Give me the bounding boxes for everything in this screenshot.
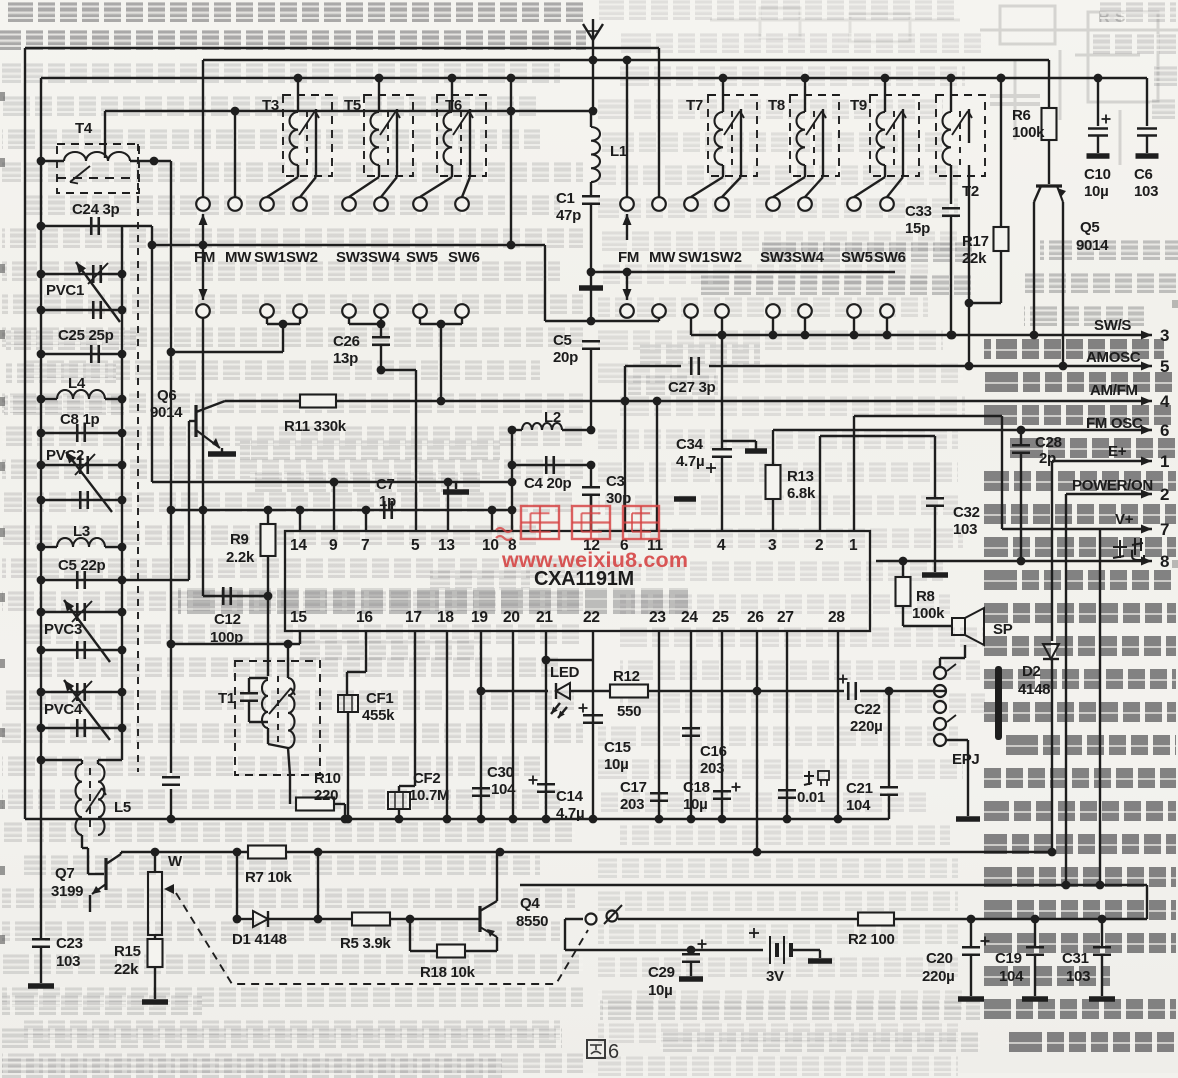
svg-text:C22: C22 — [854, 701, 881, 718]
transformer L5 — [41, 759, 82, 761]
capacitor C22 220u — [847, 682, 850, 700]
svg-text:15: 15 — [290, 609, 307, 626]
capacitor C16 203 on pin24 — [690, 631, 692, 819]
wire FM OSC line — [773, 429, 1129, 431]
svg-text:8550: 8550 — [516, 913, 548, 930]
capacitor C28 2p — [1020, 430, 1022, 445]
resistor R12 550 — [610, 685, 648, 698]
wire rail C x152 — [151, 226, 153, 482]
svg-text:C32: C32 — [953, 504, 980, 521]
svg-text:1: 1 — [1160, 452, 1169, 471]
svg-text:550: 550 — [617, 703, 641, 720]
svg-text:FM: FM — [194, 249, 215, 266]
svg-text:4.7µ: 4.7µ — [676, 453, 704, 470]
svg-text:C21: C21 — [846, 780, 873, 797]
svg-text:22k: 22k — [114, 961, 139, 978]
svg-text:R5 3.9k: R5 3.9k — [340, 935, 391, 952]
inductor L2 — [587, 426, 596, 435]
svg-text:AMOSC: AMOSC — [1086, 349, 1141, 366]
svg-text:L4: L4 — [68, 375, 86, 392]
svg-text:L2: L2 — [544, 409, 561, 426]
capacitor C5 22p — [41, 579, 189, 581]
speaker SP — [952, 618, 965, 635]
wire SW/S line — [691, 334, 1129, 336]
svg-text:17: 17 — [405, 609, 422, 626]
svg-text:20: 20 — [503, 609, 520, 626]
inductor L3 — [41, 546, 57, 548]
svg-text:8: 8 — [1160, 552, 1169, 571]
svg-text:0.01: 0.01 — [797, 789, 825, 806]
wire SW5/SW6-left pair link — [419, 318, 421, 324]
capacitor C25 25p — [41, 353, 122, 355]
wire T9 right leg — [902, 143, 904, 177]
svg-text:22: 22 — [583, 609, 600, 626]
svg-text:L5: L5 — [114, 799, 131, 816]
transformer T4 — [57, 144, 139, 193]
capacitor C8 1p — [41, 432, 122, 434]
svg-text:16: 16 — [356, 609, 373, 626]
svg-text:R12: R12 — [613, 668, 640, 685]
svg-text:3: 3 — [1160, 326, 1169, 345]
svg-text:10µ: 10µ — [683, 796, 707, 813]
svg-text:C10: C10 — [1084, 166, 1111, 183]
svg-text:4: 4 — [717, 537, 726, 554]
svg-text:C30: C30 — [487, 764, 514, 781]
svg-text:C26: C26 — [333, 333, 360, 350]
transistor Q6 9014 — [194, 405, 197, 437]
capacitor C18 10u on pin25 — [721, 631, 723, 819]
svg-text:C33: C33 — [905, 203, 932, 220]
capacitor C13 — [162, 776, 180, 779]
svg-text:9: 9 — [329, 537, 338, 554]
switch bank right bottom contacts — [620, 304, 634, 318]
scan margin marks — [0, 92, 5, 101]
svg-text:SW3: SW3 — [336, 249, 368, 266]
wire antenna link y111 — [105, 110, 593, 112]
caption 'tu 6' figure 6 — [587, 1040, 605, 1058]
wire pin6 — [624, 366, 626, 531]
inductor L4 — [41, 398, 57, 400]
wire T8 left leg — [804, 165, 806, 177]
transformer T3 — [283, 95, 332, 176]
svg-text:20p: 20p — [553, 349, 578, 366]
wire pin2 — [819, 436, 821, 531]
capacitor C32 103 — [934, 436, 936, 498]
svg-text:SP: SP — [993, 621, 1013, 638]
svg-text:3: 3 — [768, 537, 777, 554]
resistor R6 100k — [1048, 60, 1050, 108]
svg-text:220µ: 220µ — [850, 718, 882, 735]
svg-text:FM: FM — [618, 249, 639, 266]
wire pin1 — [853, 416, 855, 531]
svg-text:L3: L3 — [73, 523, 90, 540]
earphone jack EPJ — [964, 645, 966, 658]
wire left rail A x41 — [40, 78, 42, 939]
svg-text:C25 25p: C25 25p — [58, 327, 114, 344]
svg-text:PVC2: PVC2 — [46, 447, 84, 464]
svg-text:21: 21 — [536, 609, 553, 626]
wire T7 left leg — [722, 165, 724, 177]
wire link y352 — [171, 351, 283, 353]
inductor L1 — [590, 111, 592, 127]
wire T3 right leg — [315, 143, 317, 177]
svg-text:R8: R8 — [916, 588, 935, 605]
wire AM/FM arrow — [1129, 400, 1152, 402]
svg-text:R6: R6 — [1012, 107, 1031, 124]
svg-text:C5: C5 — [553, 332, 572, 349]
svg-text:3V: 3V — [766, 968, 784, 985]
wire AGC x318 — [317, 852, 319, 919]
svg-text:C12: C12 — [214, 611, 241, 628]
wire T2 left leg — [950, 165, 952, 204]
svg-text:R15: R15 — [114, 943, 141, 960]
svg-text:T2: T2 — [962, 183, 979, 200]
svg-text:D1 4148: D1 4148 — [232, 931, 287, 948]
svg-text:C28: C28 — [1035, 434, 1062, 451]
svg-text:E+: E+ — [1108, 443, 1127, 460]
svg-text:9014: 9014 — [1076, 237, 1109, 254]
svg-text:R10: R10 — [314, 770, 341, 787]
svg-text:SW2: SW2 — [710, 249, 742, 266]
capacitor C17 203 on pin23 — [658, 631, 660, 819]
wire link y321 — [545, 320, 659, 322]
svg-text:C1: C1 — [556, 190, 575, 207]
wire MW-left top — [234, 111, 236, 197]
svg-text:47p: 47p — [556, 207, 581, 224]
capacitor C14 4.7u on pin21 — [545, 631, 547, 819]
svg-text:2: 2 — [1160, 485, 1169, 504]
transformer T1 — [235, 661, 320, 775]
svg-text:C29: C29 — [648, 964, 675, 981]
wire y885 bus — [520, 884, 1147, 886]
svg-text:T7: T7 — [686, 97, 703, 114]
capacitor C5 20p — [582, 340, 600, 343]
capacitor C6 103 — [1146, 78, 1148, 126]
svg-text:203: 203 — [700, 760, 724, 777]
svg-text:C23: C23 — [56, 935, 83, 952]
svg-text:C19: C19 — [995, 950, 1022, 967]
svg-text:SW/S: SW/S — [1094, 317, 1131, 334]
svg-text:C8 1p: C8 1p — [60, 411, 99, 428]
variable capacitor PVC1 — [41, 273, 122, 275]
capacitor C20 220u — [970, 919, 972, 946]
wire POWER drop x1066 — [1065, 494, 1067, 885]
svg-text:7: 7 — [361, 537, 369, 554]
label 'di' (ground) for pin 8 line — [1119, 540, 1121, 558]
capacitor C31 103 — [1101, 919, 1103, 946]
svg-text:T4: T4 — [75, 120, 93, 137]
wire left wiper drop to link — [544, 245, 546, 321]
power switch — [586, 914, 597, 925]
transistor Q7 3199 — [104, 858, 107, 890]
resistor R10 220 — [296, 798, 334, 811]
wire R2 right — [894, 918, 1147, 920]
svg-text:C31: C31 — [1062, 950, 1089, 967]
ground right wiper — [579, 285, 603, 291]
svg-text:SW5: SW5 — [406, 249, 438, 266]
svg-text:22k: 22k — [962, 250, 987, 267]
wire outer-left rail — [24, 48, 26, 819]
svg-text:7: 7 — [1160, 520, 1169, 539]
svg-text:SW4: SW4 — [792, 249, 825, 266]
svg-text:EPJ: EPJ — [952, 751, 979, 768]
wire T2 right leg — [968, 165, 970, 366]
wire T5 left leg — [378, 165, 380, 177]
svg-text:25: 25 — [712, 609, 729, 626]
svg-text:SW3: SW3 — [760, 249, 792, 266]
transformer T9 — [870, 95, 919, 176]
svg-text:18: 18 — [437, 609, 454, 626]
wire C7 line y510 — [171, 509, 512, 511]
capacitor C23 103 — [32, 938, 50, 941]
svg-text:2.2k: 2.2k — [226, 549, 255, 566]
svg-text:R9: R9 — [230, 531, 249, 548]
capacitor C29 10u — [690, 950, 692, 953]
svg-text:R11 330k: R11 330k — [284, 418, 347, 435]
svg-text:MW: MW — [225, 249, 252, 266]
wire right bank bottom drops to SW/S bus — [690, 318, 692, 335]
wire POWER/ON line — [1066, 493, 1129, 495]
variable capacitor PVC4 — [41, 691, 122, 693]
wire link y370 to pin5 — [381, 369, 416, 371]
ceramic filter CF2 10.7M — [414, 631, 416, 786]
svg-text:30p: 30p — [606, 490, 631, 507]
wire pin26 — [756, 631, 758, 852]
wire pin5 — [415, 370, 417, 531]
wire pin7 — [365, 510, 367, 531]
label 'tie' (chip) on pin27 cap — [808, 771, 810, 785]
capacitor C12 100p — [203, 595, 268, 597]
svg-text:www.weixiu8.com: www.weixiu8.com — [501, 548, 688, 572]
wire pin28 — [837, 631, 839, 819]
capacitor C19 104 — [1034, 919, 1036, 946]
potentiometer W — [154, 852, 156, 872]
diode D1 4148 — [237, 918, 253, 920]
svg-text:POWER/ON: POWER/ON — [1072, 477, 1153, 494]
node T4 top tap — [104, 111, 106, 158]
svg-text:C4 20p: C4 20p — [524, 475, 572, 492]
svg-text:103: 103 — [1066, 968, 1090, 985]
svg-text:T6: T6 — [445, 97, 462, 114]
wire line y482 + ground stub — [152, 481, 512, 483]
svg-text:23: 23 — [649, 609, 666, 626]
wire AGC x237 — [236, 852, 238, 919]
svg-text:R7 10k: R7 10k — [245, 869, 293, 886]
ceramic filter CF1 455k — [365, 631, 367, 672]
wire FM-right top — [626, 60, 628, 197]
wire T9 left leg — [884, 165, 886, 177]
svg-text:24: 24 — [681, 609, 698, 626]
resistor R2 100 — [858, 913, 894, 926]
svg-text:C17: C17 — [620, 779, 647, 796]
svg-text:SW2: SW2 — [286, 249, 318, 266]
svg-text:C3: C3 — [606, 473, 625, 490]
wire T6 left leg — [451, 165, 453, 177]
left wiper arrows — [202, 214, 204, 242]
svg-text:D2: D2 — [1022, 663, 1041, 680]
battery 3V — [564, 919, 566, 950]
svg-text:28: 28 — [828, 609, 845, 626]
capacitor C4 20p — [587, 461, 596, 470]
svg-text:W: W — [168, 853, 183, 870]
svg-text:FM OSC: FM OSC — [1086, 415, 1143, 432]
svg-text:Q6: Q6 — [157, 387, 176, 404]
wire FM-left bottom drop — [202, 318, 204, 596]
svg-text:10µ: 10µ — [648, 982, 672, 999]
bus y852 — [121, 851, 248, 853]
resistor R13 6.8k on pin3 — [772, 430, 774, 465]
svg-text:13: 13 — [438, 537, 455, 554]
svg-text:T8: T8 — [768, 97, 785, 114]
svg-text:C6: C6 — [1134, 166, 1153, 183]
resistor R17 22k — [997, 74, 1006, 83]
svg-text:T1: T1 — [218, 690, 235, 707]
LED — [556, 683, 570, 699]
svg-text:C20: C20 — [926, 950, 953, 967]
wire rail D x171 — [170, 161, 172, 773]
capacitor 0.01 (chip) on pin27 — [786, 631, 788, 819]
wire T6 right leg — [469, 143, 471, 177]
transistor Q4 8550 — [478, 906, 481, 932]
svg-text:C15: C15 — [604, 739, 631, 756]
wire pin11 — [656, 401, 658, 531]
svg-text:104: 104 — [846, 797, 871, 814]
svg-text:13p: 13p — [333, 350, 358, 367]
transformer T2 — [936, 95, 985, 176]
wire pin15 link — [299, 631, 301, 644]
wire top bus B (FM bus) — [203, 59, 1049, 61]
svg-text:4: 4 — [1160, 392, 1170, 411]
capacitor C3 30p — [590, 465, 592, 487]
wire pin10 — [491, 510, 493, 531]
svg-text:Q4: Q4 — [520, 895, 540, 912]
wire pin12 — [590, 495, 592, 531]
svg-text:14: 14 — [290, 537, 307, 554]
capacitor C21 104 — [888, 691, 890, 786]
wire V+ line — [1002, 528, 1129, 530]
svg-text:C34: C34 — [676, 436, 704, 453]
dashed section divider — [137, 144, 139, 772]
wire T3 left leg — [297, 165, 299, 177]
svg-text:T9: T9 — [850, 97, 867, 114]
wire pin18 — [446, 631, 448, 819]
variable capacitor PVC3 — [41, 611, 122, 613]
power line y919 — [565, 918, 583, 920]
resistor R9 2.2k — [264, 506, 273, 515]
wire E+ line — [1052, 460, 1129, 462]
svg-text:PVC3: PVC3 — [44, 621, 82, 638]
wire MW-right top — [658, 48, 660, 197]
audio line y691 — [481, 690, 548, 692]
svg-text:CF1: CF1 — [366, 690, 393, 707]
svg-text:T3: T3 — [262, 97, 279, 114]
wire pin8 — [511, 430, 513, 531]
op-amp U1 CXA1191M body — [285, 531, 870, 631]
wire top bus C (main supply top bus) — [41, 77, 1147, 79]
svg-text:T5: T5 — [344, 97, 361, 114]
svg-text:4148: 4148 — [1018, 681, 1050, 698]
svg-text:C24 3p: C24 3p — [72, 201, 120, 218]
svg-text:R13: R13 — [787, 468, 814, 485]
svg-text:SW1: SW1 — [678, 249, 710, 266]
wire FM-left top to bus B — [202, 60, 204, 197]
wire T8 right leg — [822, 143, 824, 177]
wire pin4 + capacitor C34 4.7u — [721, 335, 723, 449]
ground bus y819 — [25, 818, 889, 820]
svg-text:1: 1 — [849, 537, 858, 554]
svg-text:Q5: Q5 — [1080, 219, 1099, 236]
wire GND(di) line — [876, 560, 1129, 562]
resistor R8 100k — [902, 561, 904, 577]
capacitor C33 15p — [942, 207, 960, 210]
svg-text:SW5: SW5 — [841, 249, 873, 266]
svg-text:C7: C7 — [376, 476, 395, 493]
wire pin20 — [512, 631, 514, 819]
svg-text:100k: 100k — [1012, 124, 1045, 141]
svg-text:Q7: Q7 — [55, 865, 74, 882]
svg-text:C18: C18 — [683, 779, 710, 796]
svg-text:3199: 3199 — [51, 883, 83, 900]
svg-text:SW6: SW6 — [448, 249, 480, 266]
svg-text:C5 22p: C5 22p — [58, 557, 106, 574]
diode D2 4148 — [1051, 461, 1053, 641]
wire left wiper bus — [152, 244, 545, 246]
svg-text:15p: 15p — [905, 220, 930, 237]
wire top bus A (antenna bus) — [25, 47, 659, 49]
svg-text:5: 5 — [411, 537, 420, 554]
wire pin13 — [447, 482, 449, 531]
ground floating a — [745, 448, 767, 454]
switch bank right top contacts — [620, 197, 634, 211]
svg-text:2: 2 — [815, 537, 823, 554]
svg-text:MW: MW — [649, 249, 676, 266]
svg-text:V+: V+ — [1115, 511, 1134, 528]
svg-text:203: 203 — [620, 796, 644, 813]
svg-text:6.8k: 6.8k — [787, 485, 816, 502]
svg-text:220: 220 — [314, 787, 338, 804]
wire SW1/SW2-left pair link — [266, 318, 268, 324]
resistor R15 22k — [154, 935, 156, 939]
capacitor C30 104 on pin19 — [480, 631, 482, 819]
switch bank left top contacts — [196, 197, 210, 211]
capacitor C15 10u on pin22 — [592, 631, 594, 819]
transformer T5 — [364, 95, 413, 176]
wire T7 right leg — [740, 143, 742, 177]
capacitor C1 47p — [590, 182, 592, 196]
svg-text:10: 10 — [482, 537, 499, 554]
transformer T8 — [790, 95, 839, 176]
svg-text:C14: C14 — [556, 788, 584, 805]
ground floating b — [674, 496, 696, 502]
transistor Q5 9014 — [1036, 184, 1062, 187]
capacitor C10 10u — [1097, 78, 1099, 126]
svg-text:100k: 100k — [912, 605, 945, 622]
capacitor C26 13p — [348, 318, 350, 324]
svg-text:455k: 455k — [362, 707, 395, 724]
svg-text:PVC4: PVC4 — [44, 701, 83, 718]
resistor R5 3.9k — [318, 918, 352, 920]
svg-text:103: 103 — [953, 521, 977, 538]
wire T4 row — [41, 160, 64, 162]
switch bank left bottom contacts — [196, 304, 210, 318]
svg-text:103: 103 — [56, 953, 80, 970]
svg-text:10µ: 10µ — [604, 756, 628, 773]
capacitor C24 3p — [41, 225, 152, 227]
svg-text:220µ: 220µ — [922, 968, 954, 985]
wire pin9 — [333, 482, 335, 531]
svg-text:19: 19 — [471, 609, 488, 626]
svg-text:1p: 1p — [379, 493, 396, 510]
